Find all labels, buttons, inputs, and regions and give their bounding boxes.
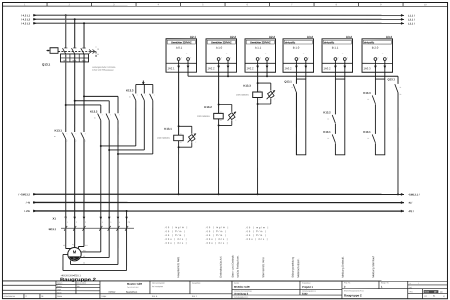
svg-text:1: 1 xyxy=(67,133,68,135)
svg-text:.00 | mg/m |: .00 | mg/m | xyxy=(205,227,229,229)
svg-text:1: 1 xyxy=(110,114,111,116)
svg-text:A-Nummer xx: A-Nummer xx xyxy=(3,295,15,298)
svg-text:1A2.2: 1A2.2 xyxy=(208,66,216,70)
svg-text:A2.1: A2.1 xyxy=(190,35,196,39)
svg-text:Q13.1: Q13.1 xyxy=(42,62,51,66)
svg-text:.00 | P/m |: .00 | P/m | xyxy=(164,235,186,237)
svg-text:3: 3 xyxy=(85,222,86,224)
svg-text:.00 | P/m |: .00 | P/m | xyxy=(205,235,227,237)
svg-text:1: 1 xyxy=(67,222,68,224)
svg-text:1A5.2: 1A5.2 xyxy=(324,66,332,70)
svg-text:.00 | P/m |: .00 | P/m | xyxy=(245,235,267,237)
svg-text:1A2.2: 1A2.2 xyxy=(247,66,255,70)
svg-text:A3.2: A3.2 xyxy=(346,35,352,39)
svg-text:1: 1 xyxy=(119,114,120,116)
svg-text:Verteilungskennz 1: Verteilungskennz 1 xyxy=(234,296,248,299)
svg-text:-GM13.1 /: -GM13.1 / xyxy=(408,192,420,196)
svg-text:L3.1 /: L3.1 / xyxy=(408,21,415,25)
svg-text:Mu: Mu xyxy=(77,286,80,288)
svg-text:.00 | P/m |: .00 | P/m | xyxy=(164,231,186,233)
svg-text:1: 1 xyxy=(85,133,86,135)
svg-text:Meldung Sternlauf: Meldung Sternlauf xyxy=(371,256,375,278)
svg-text:W2: W2 xyxy=(83,250,86,252)
svg-text:Norm: Norm xyxy=(57,292,62,294)
svg-text:5: 5 xyxy=(110,222,111,224)
svg-text:K13.3: K13.3 xyxy=(126,88,134,92)
svg-text:Urspr.: Urspr. xyxy=(101,295,107,298)
svg-text:K13.2: K13.2 xyxy=(204,105,212,109)
svg-text:Mustec GdR: Mustec GdR xyxy=(127,282,142,286)
svg-text:V1: V1 xyxy=(72,244,74,246)
svg-text:Bearbeitungsstand (Anl.): Bearbeitungsstand (Anl.) xyxy=(344,289,364,292)
svg-text:K13.2: K13.2 xyxy=(90,110,98,114)
svg-text:13: 13 xyxy=(367,138,369,140)
svg-text:Umrichter 230VAC: Umrichter 230VAC xyxy=(211,40,232,44)
svg-text:.00u | m/s |: .00u | m/s | xyxy=(245,239,268,241)
svg-text:Ers. d.: Ers. d. xyxy=(152,295,158,298)
svg-text:A3.3: A3.3 xyxy=(386,35,392,39)
svg-text:11: 11 xyxy=(97,54,99,56)
svg-text:.00 | P/m |: .00 | P/m | xyxy=(245,231,267,233)
svg-text:Hauptschütz Netz: Hauptschütz Netz xyxy=(176,256,180,278)
svg-text:1: 1 xyxy=(145,94,146,96)
svg-text:V2: V2 xyxy=(83,262,85,264)
svg-text:Umrichter 230VAC: Umrichter 230VAC xyxy=(171,40,192,44)
svg-text:K13.1: K13.1 xyxy=(363,130,371,134)
svg-text:Blatt: Blatt xyxy=(425,291,430,294)
svg-text:von: von xyxy=(424,296,427,298)
svg-text:3: 3 xyxy=(190,57,191,59)
svg-text:13: 13 xyxy=(291,87,293,89)
svg-text:5102: 5102 xyxy=(302,293,308,296)
svg-text:2: 2 xyxy=(25,296,26,298)
svg-text:Tel. XX XX XX: Tel. XX XX XX xyxy=(127,287,139,289)
svg-text:-N /: -N / xyxy=(408,201,412,205)
svg-text:Projektbez.: Projektbez. xyxy=(302,282,311,285)
svg-text:.00u | m/s |: .00u | m/s | xyxy=(205,239,228,241)
svg-text:1A5.3: 1A5.3 xyxy=(364,66,372,70)
svg-text:.00 | mg/m |: .00 | mg/m | xyxy=(245,227,269,229)
svg-text:3: 3 xyxy=(308,57,309,59)
svg-text:MCBlec GdR: MCBlec GdR xyxy=(234,285,250,289)
svg-text:3: 3 xyxy=(269,57,270,59)
svg-text:2: 2 xyxy=(260,57,261,59)
svg-text:Kunde: Kunde xyxy=(234,283,239,285)
svg-text:A 0.1: A 0.1 xyxy=(176,46,183,50)
svg-text:Leistungsschalter mit Motor-: Leistungsschalter mit Motor- xyxy=(92,66,116,69)
svg-text:Zusatzbez.: Zusatzbez. xyxy=(192,282,201,285)
svg-text:sirius/dc: sirius/dc xyxy=(285,40,296,44)
svg-text:B 2.0: B 2.0 xyxy=(372,46,379,50)
svg-text:A2.2: A2.2 xyxy=(269,35,275,39)
svg-text:2: 2 xyxy=(378,57,379,59)
svg-text:Ers. f.: Ers. f. xyxy=(192,295,197,298)
svg-text:2: 2 xyxy=(221,57,222,59)
svg-text:Projekt 1: Projekt 1 xyxy=(302,285,314,289)
svg-text:Verteilung 5: Verteilung 5 xyxy=(234,293,249,296)
svg-text:13: 13 xyxy=(367,99,369,101)
svg-text:.00 | mg/m |: .00 | mg/m | xyxy=(164,227,188,229)
svg-text:U1: U1 xyxy=(63,245,65,247)
svg-text:(x): (x) xyxy=(409,287,412,289)
svg-text:X1: X1 xyxy=(53,217,57,221)
svg-text:4: 4 xyxy=(102,222,103,224)
svg-text:Umrichter 230VAC: Umrichter 230VAC xyxy=(250,40,271,44)
svg-text:13: 13 xyxy=(97,49,99,51)
svg-text:2: 2 xyxy=(67,140,68,142)
svg-text:K13.1: K13.1 xyxy=(323,130,331,134)
svg-text:Dreieckschütz Anl.: Dreieckschütz Anl. xyxy=(219,256,223,278)
svg-text:Baugruppe 2: Baugruppe 2 xyxy=(344,293,362,297)
svg-text:1A2.1: 1A2.1 xyxy=(168,66,176,70)
svg-text:K13.3: K13.3 xyxy=(363,91,371,95)
svg-text:B 1.1: B 1.1 xyxy=(332,46,339,50)
svg-text:6: 6 xyxy=(119,222,120,224)
svg-text:3: 3 xyxy=(387,57,388,59)
svg-text:.00 | P/m |: .00 | P/m | xyxy=(205,231,227,233)
svg-text:3: 3 xyxy=(347,57,348,59)
svg-text:230V 50/60Hz: 230V 50/60Hz xyxy=(197,116,210,118)
svg-text:A 1.0: A 1.0 xyxy=(216,46,223,50)
svg-text:W1: W1 xyxy=(85,245,88,247)
svg-text:/ -GM13.2: / -GM13.2 xyxy=(18,192,30,196)
svg-text:A2.2: A2.2 xyxy=(230,35,236,39)
svg-text:B 1.0: B 1.0 xyxy=(293,46,300,50)
svg-text:13: 13 xyxy=(327,119,329,121)
svg-text:Proj.-Nr.: Proj.-Nr. xyxy=(344,282,351,284)
svg-text:2: 2 xyxy=(76,140,77,142)
svg-text:2: 2 xyxy=(85,140,86,142)
svg-text:Sternschütz Verd.: Sternschütz Verd. xyxy=(261,257,265,278)
svg-text:/ 4.2 L3: / 4.2 L3 xyxy=(21,21,30,25)
svg-text:Störungsmeldung: Störungsmeldung xyxy=(291,256,295,277)
svg-text:230V 50/60Hz: 230V 50/60Hz xyxy=(157,138,170,140)
svg-text:2: 2 xyxy=(76,222,77,224)
svg-text:K13.2: K13.2 xyxy=(323,110,331,114)
svg-text:K13.1: K13.1 xyxy=(55,128,63,132)
svg-text:A3.2: A3.2 xyxy=(307,35,313,39)
svg-text:Netz ummantelt: Netz ummantelt xyxy=(152,282,165,285)
svg-text:L1.1 /: L1.1 / xyxy=(408,13,415,17)
svg-text:/ -PE: / -PE xyxy=(24,209,30,213)
svg-text:22: 22 xyxy=(400,94,402,96)
svg-text:K13.1: K13.1 xyxy=(164,127,172,131)
svg-text:04552: 04552 xyxy=(109,291,116,294)
svg-text:Anz.: Anz. xyxy=(409,290,413,293)
svg-text:1: 1 xyxy=(102,114,103,116)
svg-text:L2.1 /: L2.1 / xyxy=(408,17,415,21)
svg-text:schutz und Hilfsausloeser: schutz und Hilfsausloeser xyxy=(92,69,114,72)
svg-text:2: 2 xyxy=(181,57,182,59)
svg-text:-W13.1: -W13.1 xyxy=(48,228,57,231)
svg-text:1A5.2: 1A5.2 xyxy=(285,66,293,70)
svg-text:sirius/dc: sirius/dc xyxy=(324,40,335,44)
svg-text:Stern- und Dreieck-: Stern- und Dreieck- xyxy=(231,255,235,278)
svg-text:Q13.1: Q13.1 xyxy=(388,77,396,81)
svg-text:Baugr.-Nr.: Baugr.-Nr. xyxy=(381,282,390,284)
svg-text:3~: 3~ xyxy=(73,256,76,260)
svg-text:.00u | m/s |: .00u | m/s | xyxy=(164,239,187,241)
svg-text:.00u | m/s |: .00u | m/s | xyxy=(205,243,228,245)
svg-text:Bearb: Bearb xyxy=(57,286,62,288)
svg-text:Bauleithen: Bauleithen xyxy=(126,291,138,294)
svg-text:/ 4.2 L1: / 4.2 L1 xyxy=(21,13,30,17)
svg-text:U2: U2 xyxy=(83,256,85,258)
svg-text:13: 13 xyxy=(327,138,329,140)
svg-text:/ 4.2 L2: / 4.2 L2 xyxy=(21,17,30,21)
svg-text:frei verdrahtet: frei verdrahtet xyxy=(152,285,164,288)
svg-text:Q13.1: Q13.1 xyxy=(284,80,292,84)
svg-text:sirius/dc: sirius/dc xyxy=(364,40,375,44)
svg-text:1: 1 xyxy=(154,94,155,96)
svg-text:M: M xyxy=(73,249,77,254)
svg-text:Meldung Dreieckl.: Meldung Dreieckl. xyxy=(341,256,345,277)
svg-text:Datum: Datum xyxy=(57,282,63,285)
svg-text:2: 2 xyxy=(338,57,339,59)
svg-text:1: 1 xyxy=(76,133,77,135)
svg-text:A 1.1: A 1.1 xyxy=(255,46,262,50)
svg-text:/ -N: / -N xyxy=(26,201,30,205)
svg-text:230V 50/60Hz: 230V 50/60Hz xyxy=(236,95,249,97)
svg-text:schütz Freilauf ver.: schütz Freilauf ver. xyxy=(236,255,240,277)
svg-text:K13.3: K13.3 xyxy=(243,84,251,88)
svg-text:Gepr: Gepr xyxy=(57,289,61,291)
svg-text:-PE /: -PE / xyxy=(408,209,414,213)
svg-text:3: 3 xyxy=(230,57,231,59)
svg-text:21: 21 xyxy=(400,87,402,89)
svg-text:1: 1 xyxy=(137,94,138,96)
svg-text:03.02.2012: 03.02.2012 xyxy=(77,283,86,285)
svg-text:.00u | m/s |: .00u | m/s | xyxy=(164,243,187,245)
svg-text:Motorschutzsch.: Motorschutzsch. xyxy=(296,258,300,277)
svg-text:Name: Name xyxy=(57,296,62,298)
svg-text:2: 2 xyxy=(299,57,300,59)
